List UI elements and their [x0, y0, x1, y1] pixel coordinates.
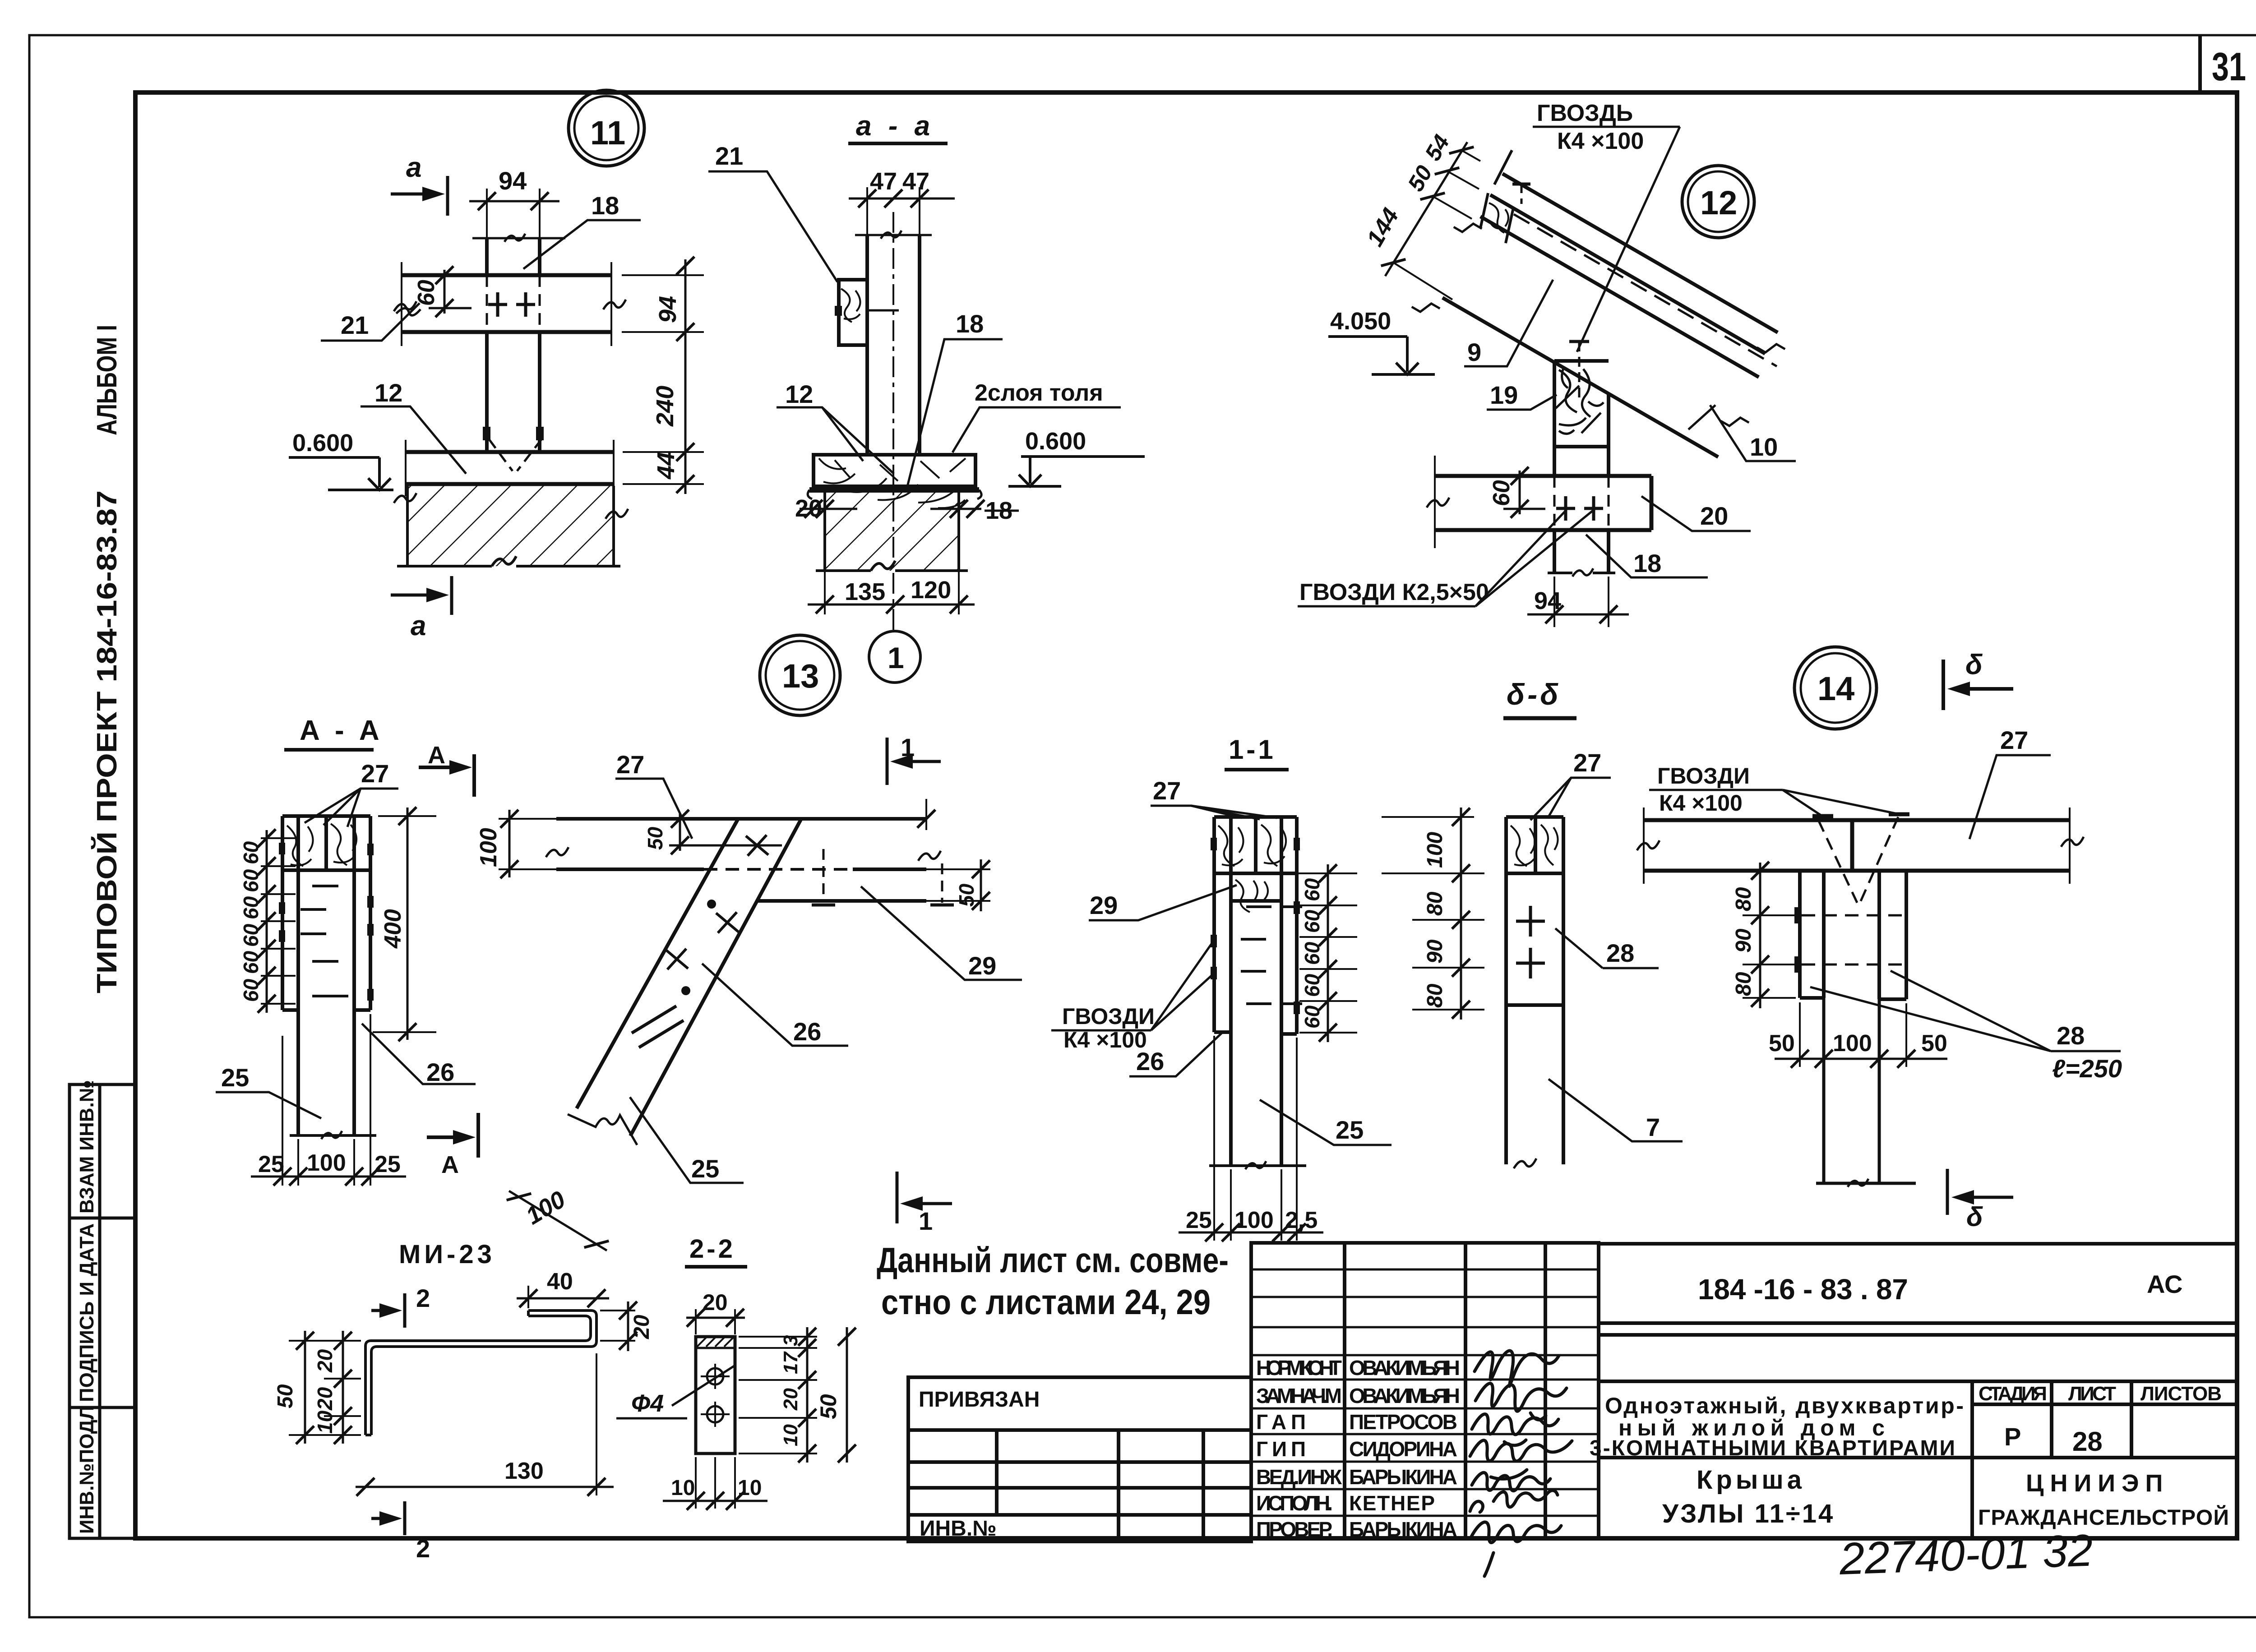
- svg-text:60: 60: [1489, 480, 1515, 506]
- big right area: [1599, 1244, 2237, 1538]
- svg-text:60: 60: [1300, 878, 1324, 901]
- core post: [1816, 998, 1916, 1183]
- svg-text:50: 50: [643, 826, 667, 850]
- side boards 28: [1800, 871, 1906, 999]
- svg-text:18: 18: [1633, 549, 1661, 577]
- dim 20 right of hook: [600, 1310, 635, 1311]
- svg-text:20: 20: [630, 1315, 654, 1339]
- privyazan box: [908, 1377, 1251, 1541]
- svg-text:90: 90: [1732, 928, 1756, 953]
- top beam: [556, 819, 926, 869]
- svg-text:50: 50: [1769, 1030, 1795, 1057]
- svg-text:50: 50: [1921, 1030, 1947, 1057]
- svg-text:28: 28: [2057, 1021, 2085, 1050]
- joint cut lines: [632, 1006, 684, 1047]
- svg-text:11: 11: [590, 114, 625, 152]
- sheet number box 31: [2200, 35, 2246, 92]
- section mark b bottom: [1947, 1169, 2013, 1215]
- svg-text:МИ-23: МИ-23: [399, 1240, 495, 1269]
- diagonal brace 26/25: [577, 818, 802, 1136]
- svg-text:10: 10: [780, 1424, 802, 1446]
- svg-text:60: 60: [239, 841, 263, 864]
- T nail on post top: [1569, 340, 1589, 343]
- svg-text:ПРОВЕР.: ПРОВЕР.: [1256, 1518, 1333, 1541]
- rafter dashed axis: [1514, 214, 1777, 366]
- signature table outline: [1251, 1243, 1599, 1538]
- svg-text:К4 ×100: К4 ×100: [1659, 790, 1743, 816]
- beam (joist) horizontal: [402, 275, 611, 332]
- left dim chain 100/80/90/80: [1460, 808, 1462, 1020]
- svg-text:a: a: [406, 152, 421, 183]
- bent strip: [365, 1311, 596, 1435]
- svg-text:ЛИСТ: ЛИСТ: [2068, 1383, 2116, 1405]
- svg-text:ГВОЗДИ: ГВОЗДИ: [1657, 763, 1750, 789]
- section mark a (top): [391, 176, 448, 216]
- node balloon 12: [1682, 166, 1754, 238]
- bottom dims: [1214, 1036, 1297, 1241]
- perpendicular dim chain 144/50/54: [1385, 142, 1467, 276]
- svg-text:100: 100: [1423, 832, 1447, 868]
- svg-text:94: 94: [499, 166, 527, 195]
- T nail at deck: [1512, 183, 1530, 186]
- svg-text:ГАП: ГАП: [1256, 1410, 1306, 1434]
- svg-text:14: 14: [1817, 670, 1854, 707]
- svg-text:29: 29: [968, 951, 996, 980]
- svg-text:21: 21: [715, 142, 743, 170]
- left dim 100: [509, 810, 511, 877]
- foundation: [825, 493, 959, 571]
- svg-text:δ: δ: [1966, 1202, 1983, 1232]
- svg-text:100: 100: [307, 1150, 346, 1176]
- rafter board: [1442, 217, 1759, 457]
- edge nail marks: [1211, 838, 1300, 1014]
- svg-text:21: 21: [341, 311, 369, 339]
- svg-text:БАРЫКИНА: БАРЫКИНА: [1349, 1518, 1457, 1541]
- svg-text:a - a: a - a: [856, 111, 934, 142]
- svg-text:100: 100: [1833, 1030, 1872, 1057]
- assembly: [1214, 817, 1297, 1166]
- dim 60 inside beam: [444, 270, 446, 314]
- svg-text:ГИП: ГИП: [1256, 1437, 1306, 1461]
- svg-text:50: 50: [273, 1384, 297, 1408]
- svg-text:ОВАКИМЬЯН: ОВАКИМЬЯН: [1349, 1356, 1460, 1380]
- nails along diagonal: [666, 835, 768, 969]
- svg-text:1: 1: [901, 733, 915, 761]
- bottom dims 10 10: [696, 1457, 735, 1509]
- svg-text:УЗЛЫ 11÷14: УЗЛЫ 11÷14: [1662, 1499, 1835, 1528]
- nail marks on top: [1812, 814, 1833, 818]
- svg-text:130: 130: [504, 1458, 544, 1484]
- svg-text:90: 90: [1423, 939, 1447, 964]
- plate with grain: [814, 455, 975, 486]
- hidden dashed nails: [1802, 915, 1904, 964]
- section marks A: [419, 754, 474, 797]
- signatures (handwritten squiggles): [1470, 1351, 1572, 1576]
- svg-text:44: 44: [652, 452, 680, 480]
- svg-text:20: 20: [1700, 502, 1728, 530]
- right dim chain 94/240/44: [684, 259, 687, 494]
- svg-text:ПЕТРОСОВ: ПЕТРОСОВ: [1349, 1410, 1457, 1434]
- svg-text:10: 10: [1750, 433, 1778, 461]
- svg-text:3: 3: [780, 1335, 802, 1346]
- grain block 29: [1235, 880, 1268, 912]
- svg-text:94: 94: [654, 296, 681, 323]
- dim 50 at beam: [679, 813, 681, 851]
- svg-text:1: 1: [919, 1207, 933, 1235]
- svg-text:240: 240: [652, 386, 679, 427]
- bottom dims 25 100 25: [282, 1014, 370, 1186]
- svg-text:60: 60: [239, 869, 263, 892]
- board 29 below right: [758, 899, 926, 903]
- hidden nail dashes in core: [300, 886, 348, 996]
- svg-text:80: 80: [1732, 887, 1756, 911]
- breaks: [1454, 216, 1482, 240]
- svg-text:Одноэтажный, двухквартир-: Одноэтажный, двухквартир-: [1605, 1393, 1964, 1418]
- svg-text:60: 60: [239, 896, 263, 919]
- svg-text:20: 20: [313, 1387, 337, 1411]
- left dim chain 80/90/80: [1759, 863, 1761, 1008]
- hidden nails with T heads: [823, 849, 825, 903]
- beam 20: [1435, 476, 1651, 530]
- svg-text:12: 12: [785, 380, 813, 408]
- grain top block: [1218, 826, 1244, 866]
- svg-text:1: 1: [888, 641, 904, 674]
- section mark a (bottom): [391, 576, 452, 615]
- title block: [908, 1243, 2237, 1584]
- node balloon 13: [760, 635, 840, 715]
- position balloon 1: [869, 631, 920, 683]
- svg-text:ИНВ.№ПОДЛ: ИНВ.№ПОДЛ: [76, 1406, 98, 1534]
- svg-text:22740-01 32: 22740-01 32: [1838, 1525, 2094, 1584]
- svg-text:А - А: А - А: [300, 715, 383, 746]
- beam 27: [1645, 820, 2070, 871]
- svg-text:БАРЫКИНА: БАРЫКИНА: [1349, 1465, 1457, 1489]
- svg-text:ИСПОЛН.: ИСПОЛН.: [1256, 1491, 1333, 1515]
- svg-text:25: 25: [1336, 1116, 1364, 1144]
- hidden dashes: [1241, 907, 1302, 1004]
- left dim chain 60x6: [266, 830, 268, 1013]
- post section: [867, 235, 920, 455]
- right dim 400: [407, 808, 409, 1040]
- svg-text:10: 10: [671, 1476, 695, 1500]
- bottom break: [1514, 1158, 1536, 1168]
- svg-text:60: 60: [239, 951, 263, 974]
- svg-text:СТАДИЯ: СТАДИЯ: [1979, 1383, 2047, 1405]
- svg-text:20: 20: [313, 1349, 337, 1373]
- svg-text:ЦНИИЭП: ЦНИИЭП: [2026, 1470, 2169, 1497]
- right chain 3/17/20/10: [739, 1337, 817, 1454]
- svg-text:ВЕД.ИНЖ: ВЕД.ИНЖ: [1256, 1465, 1342, 1489]
- holes: [707, 1368, 723, 1384]
- svg-text:ГВОЗДИ: ГВОЗДИ: [1062, 1004, 1155, 1029]
- svg-text:100: 100: [1234, 1207, 1274, 1233]
- svg-text:120: 120: [911, 577, 951, 604]
- svg-text:0.600: 0.600: [1025, 428, 1086, 455]
- svg-text:80: 80: [1423, 891, 1447, 916]
- left dims 50 / 20 20 10: [289, 1341, 361, 1435]
- bottom dims 50 100 50: [1800, 1002, 1906, 1067]
- svg-text:ОВАКИМЬЯН: ОВАКИМЬЯН: [1349, 1384, 1460, 1407]
- svg-text:40: 40: [547, 1269, 573, 1295]
- svg-text:АС: АС: [2147, 1270, 2183, 1298]
- svg-text:60: 60: [239, 978, 263, 1002]
- svg-text:ГРАЖДАНСЕЛЬСТРОЙ: ГРАЖДАНСЕЛЬСТРОЙ: [1978, 1505, 2229, 1530]
- dim 60 in beam: [1519, 471, 1521, 514]
- nail head marks on post bottom: [483, 427, 490, 440]
- small filler block with grain: [1480, 150, 1513, 243]
- svg-text:60: 60: [1300, 941, 1324, 965]
- svg-text:25: 25: [374, 1151, 401, 1177]
- svg-text:ИНВ.№: ИНВ.№: [920, 1517, 997, 1541]
- svg-text:28: 28: [1606, 939, 1634, 967]
- svg-text:27: 27: [1153, 776, 1181, 805]
- bottom break: [568, 1114, 637, 1145]
- nails + in beam: [488, 292, 535, 317]
- svg-text:δ: δ: [1965, 649, 1983, 680]
- right dim chain 60x5: [1327, 864, 1329, 1042]
- svg-text:18: 18: [591, 191, 619, 220]
- section marker 1 bottom: [897, 1172, 952, 1223]
- svg-text:3-КОМНАТНЫМИ КВАРТИРАМИ: 3-КОМНАТНЫМИ КВАРТИРАМИ: [1590, 1436, 1955, 1460]
- svg-text:17: 17: [780, 1351, 802, 1374]
- core bottom break: [290, 1134, 376, 1137]
- svg-text:ТИПОВОЙ ПРОЕКТ 184-16-83.87: ТИПОВОЙ ПРОЕКТ 184-16-83.87: [91, 490, 123, 993]
- svg-text:25: 25: [1186, 1207, 1212, 1233]
- core bottom break: [1209, 1164, 1306, 1167]
- svg-text:ЗАМНАЧ.М: ЗАМНАЧ.М: [1256, 1384, 1342, 1407]
- nails +: [1516, 906, 1545, 978]
- svg-text:12: 12: [1700, 184, 1737, 221]
- svg-text:НОРМ КОНТ: НОРМ КОНТ: [1256, 1356, 1342, 1380]
- svg-text:АЛЬБОМ I: АЛЬБОМ I: [92, 325, 123, 435]
- column: [1506, 817, 1563, 1164]
- axis dash-dot: [892, 212, 894, 630]
- svg-text:ПОДПИСЬ И ДАТА: ПОДПИСЬ И ДАТА: [76, 1223, 98, 1402]
- svg-text:δ-δ: δ-δ: [1507, 678, 1561, 711]
- svg-text:4.050: 4.050: [1330, 308, 1391, 335]
- svg-text:60: 60: [1300, 1005, 1324, 1029]
- svg-text:26: 26: [793, 1017, 821, 1046]
- svg-text:Крыша: Крыша: [1697, 1465, 1805, 1495]
- svg-text:27: 27: [1573, 748, 1601, 777]
- right end breaks/ext: [925, 799, 927, 830]
- svg-text:2-2: 2-2: [689, 1234, 735, 1264]
- svg-text:СИДОРИНА: СИДОРИНА: [1349, 1437, 1457, 1461]
- svg-text:ГВОЗДИ К2,5×50: ГВОЗДИ К2,5×50: [1299, 579, 1489, 605]
- svg-text:0.600: 0.600: [292, 429, 353, 457]
- svg-text:7: 7: [1646, 1113, 1660, 1141]
- svg-text:стно с листами 24, 29: стно с листами 24, 29: [881, 1282, 1211, 1322]
- node balloon 11: [569, 90, 644, 166]
- grain in top block: [287, 826, 313, 866]
- svg-text:50: 50: [955, 883, 978, 907]
- svg-text:9: 9: [1467, 338, 1481, 366]
- section marks 2: [371, 1293, 405, 1328]
- column assembly: [282, 816, 370, 1135]
- svg-text:28: 28: [2072, 1426, 2103, 1457]
- svg-text:27: 27: [616, 750, 644, 779]
- svg-text:А: А: [441, 1151, 459, 1178]
- svg-text:2слоя толя: 2слоя толя: [975, 380, 1103, 406]
- post with grain block (19): [1554, 361, 1609, 573]
- svg-text:1-1: 1-1: [1229, 734, 1276, 765]
- svg-text:13: 13: [782, 657, 819, 695]
- dashed nail V: [489, 439, 541, 471]
- perpendicular dim 100: [509, 1191, 607, 1251]
- svg-text:100: 100: [476, 828, 502, 867]
- nails + in beam: [1556, 496, 1603, 521]
- svg-text:31: 31: [2212, 44, 2246, 89]
- dashed nail V: [1818, 817, 1898, 904]
- svg-text:60: 60: [239, 923, 263, 947]
- nail marks on edges: [279, 843, 374, 1001]
- svg-text:26: 26: [426, 1058, 454, 1086]
- right dim 50: [926, 868, 990, 870]
- svg-text:12: 12: [374, 378, 402, 407]
- svg-text:27: 27: [361, 759, 389, 788]
- svg-text:Данный лист см. совме-: Данный лист см. совме-: [877, 1240, 1229, 1280]
- dim 50 far right: [846, 1327, 848, 1463]
- left side stamp table: [69, 1084, 135, 1538]
- svg-text:135: 135: [845, 578, 885, 605]
- svg-text:25: 25: [258, 1151, 284, 1177]
- svg-text:К4 ×100: К4 ×100: [1557, 128, 1644, 154]
- svg-text:184 -16 - 83 . 87: 184 -16 - 83 . 87: [1698, 1273, 1908, 1306]
- post (stud): [487, 238, 540, 450]
- svg-text:25: 25: [691, 1154, 719, 1183]
- svg-text:20: 20: [780, 1388, 802, 1411]
- svg-text:20: 20: [703, 1290, 728, 1315]
- post bottom break + dim 94: [1548, 572, 1572, 574]
- svg-text:ℓ=250: ℓ=250: [2052, 1054, 2122, 1083]
- tar layers thick line: [809, 487, 979, 493]
- bottom plate: [406, 452, 614, 484]
- svg-text:80: 80: [1732, 972, 1756, 996]
- svg-text:ВЗАМ ИНВ.№: ВЗАМ ИНВ.№: [76, 1080, 98, 1214]
- svg-text:a: a: [411, 610, 426, 641]
- svg-text:50: 50: [816, 1394, 841, 1419]
- svg-text:19: 19: [1490, 381, 1518, 409]
- svg-text:60: 60: [1300, 909, 1324, 933]
- svg-text:ГВОЗДЬ: ГВОЗДЬ: [1537, 100, 1633, 126]
- svg-text:ПРИВЯЗАН: ПРИВЯЗАН: [919, 1388, 1040, 1412]
- roof deck board (top): [1490, 174, 1778, 354]
- section marker 1 top: [887, 738, 941, 785]
- svg-text:Р: Р: [2004, 1422, 2021, 1451]
- svg-text:26: 26: [1136, 1047, 1164, 1075]
- svg-text:60: 60: [1300, 974, 1324, 997]
- svg-text:2: 2: [416, 1284, 430, 1312]
- post top break: [472, 237, 565, 240]
- svg-text:ЛИСТОВ: ЛИСТОВ: [2140, 1383, 2222, 1405]
- svg-text:25: 25: [221, 1063, 249, 1092]
- svg-text:18: 18: [956, 309, 984, 338]
- svg-text:А: А: [428, 742, 445, 769]
- svg-text:27: 27: [2000, 726, 2028, 754]
- svg-text:29: 29: [1090, 891, 1118, 919]
- section mark b top: [1943, 660, 2013, 710]
- svg-text:Ф4: Ф4: [631, 1390, 664, 1417]
- svg-text:80: 80: [1423, 983, 1447, 1008]
- svg-text:10: 10: [313, 1410, 337, 1434]
- foundation hatch: [407, 486, 614, 566]
- svg-text:400: 400: [380, 909, 406, 949]
- svg-text:2: 2: [416, 1534, 430, 1563]
- svg-text:60: 60: [413, 280, 439, 306]
